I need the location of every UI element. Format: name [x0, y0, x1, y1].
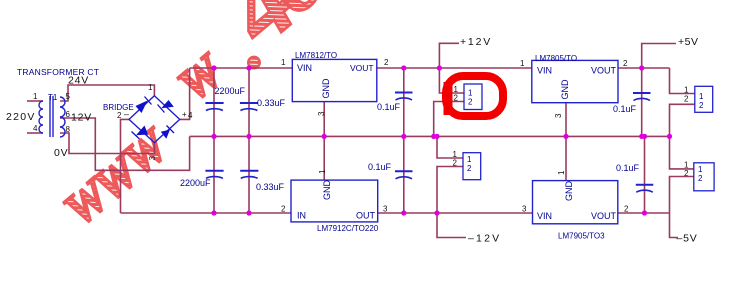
node: GND J2: [434, 134, 439, 139]
svg-text:1: 1: [699, 92, 704, 101]
diode D-topright: [161, 100, 174, 108]
svg-text:IN: IN: [297, 211, 306, 221]
watermark WWW.4: [54, 0, 342, 235]
wire: 0.1uF mid bottom column: [403, 136, 405, 213]
svg-text:T1: T1: [48, 93, 58, 102]
capacitor 0.1uF mid bottom: [395, 171, 413, 179]
wire: bottom -raw rail: [121, 212, 292, 214]
svg-text:2: 2: [684, 169, 689, 178]
svg-text:GND: GND: [564, 181, 574, 202]
node: GND cap2: [246, 134, 251, 139]
wire: bridge - to bottom rail: [121, 119, 130, 213]
svg-text:2: 2: [117, 111, 122, 120]
capacitor 0.33uF top: [240, 103, 258, 111]
svg-text:2: 2: [623, 59, 628, 68]
svg-text:2: 2: [384, 58, 389, 67]
svg-text:1: 1: [281, 58, 286, 67]
svg-text:1: 1: [468, 89, 473, 98]
wire: LM7805/LM7905 GND vertical: [565, 103, 567, 181]
wire: 2200uF bottom column: [213, 136, 215, 213]
svg-text:0.33uF: 0.33uF: [256, 182, 285, 192]
diode bar topleft: [145, 97, 152, 105]
diode bar bottomright: [167, 126, 175, 134]
wire: J1 pin1 feed: [439, 68, 464, 93]
svg-text:24V: 24V: [68, 75, 89, 87]
wire: bridge + to top rail: [180, 68, 190, 119]
svg-text:GND: GND: [322, 180, 332, 201]
svg-text:+12V: +12V: [460, 36, 492, 48]
capacitor 0.1uF mid top: [395, 93, 413, 101]
svg-text:OUT: OUT: [356, 211, 376, 221]
svg-text:2200uF: 2200uF: [215, 86, 246, 96]
capacitor 2200uF bottom: [205, 171, 223, 179]
svg-text:2: 2: [454, 94, 459, 103]
wire: 12V center tap to GND rail: [60, 118, 190, 170]
svg-text:2: 2: [453, 159, 458, 168]
diode bar topright: [158, 105, 165, 113]
wire: 0.33uF top column: [248, 68, 250, 136]
wire: 0.1uF mid top column: [403, 68, 405, 136]
wire: +5V rail: [618, 67, 670, 69]
wire: 0.1uF right top column: [641, 68, 643, 136]
svg-text:LM7905/TO3: LM7905/TO3: [558, 232, 605, 241]
svg-text:1: 1: [684, 86, 689, 95]
svg-text:8: 8: [66, 125, 71, 134]
svg-text:0.33uF: 0.33uF: [257, 98, 286, 108]
svg-text:2: 2: [468, 98, 473, 107]
node: +12V rail J1: [437, 65, 442, 70]
node: GND cap1: [211, 134, 216, 139]
transformer core: [49, 96, 51, 137]
node: +12V rail 0.1uF: [401, 65, 406, 70]
wire: 24V net pin5 to bridge top: [60, 85, 154, 101]
svg-text:VIN: VIN: [537, 66, 552, 76]
node: GND J1: [431, 134, 436, 139]
node: GND regulators right: [563, 134, 568, 139]
node: -12V rail 0.1uF: [401, 210, 406, 215]
wire: -12V rail: [378, 212, 533, 214]
svg-text:LM7912C/TO220: LM7912C/TO220: [317, 224, 379, 233]
svg-text:6: 6: [66, 110, 71, 119]
svg-text:–5V: –5V: [677, 233, 698, 245]
node: -raw cap1: [211, 210, 216, 215]
node: GND 0.1uF right top: [639, 134, 644, 139]
wire: +5V label stub: [642, 44, 676, 69]
svg-text:0.1uF: 0.1uF: [616, 163, 640, 173]
svg-text:2: 2: [467, 164, 472, 173]
wire: J2 pin1 feed from GND: [437, 136, 463, 158]
bridge diamond: [129, 96, 180, 143]
wire: transformer pin4 lead: [27, 132, 43, 134]
wire: +12V rail: [377, 67, 532, 69]
capacitor 0.1uF right top: [633, 93, 651, 101]
wire: J4 pin2 to -5V rail: [670, 177, 694, 214]
svg-text:2: 2: [281, 205, 286, 214]
svg-text:GND: GND: [560, 79, 570, 100]
wire: J3 pin2 to GND: [670, 104, 695, 136]
capacitor 0.33uF bottom: [240, 171, 258, 179]
svg-text:220V: 220V: [6, 111, 36, 123]
svg-text:0.1uF: 0.1uF: [368, 162, 392, 172]
svg-text:0V: 0V: [54, 147, 68, 159]
svg-text:VOUT: VOUT: [350, 63, 374, 73]
svg-text:–12V: –12V: [468, 233, 501, 245]
svg-text:+: +: [182, 110, 187, 119]
diode D-bottomright: [161, 130, 170, 139]
svg-text:5: 5: [66, 92, 71, 101]
svg-text:1: 1: [33, 92, 38, 101]
wire: 0V pin8 to bridge bottom: [60, 133, 154, 154]
svg-text:1: 1: [557, 170, 566, 175]
wire: J4 pin1 feed from GND: [670, 136, 694, 169]
node: -raw cap2: [246, 210, 251, 215]
svg-text:VIN: VIN: [297, 63, 312, 73]
wire: GND rail: [190, 135, 670, 137]
node: -5V rail 0.1uF: [642, 210, 647, 215]
wire: 0.33uF bottom column: [248, 136, 250, 213]
svg-text:LM7805/TO: LM7805/TO: [535, 54, 577, 63]
svg-text:LM7812/TO: LM7812/TO: [295, 51, 337, 60]
wire: J1 pin2 to GND: [434, 102, 464, 137]
svg-text:2200uF: 2200uF: [180, 178, 211, 188]
node: top rail cap1: [211, 65, 216, 70]
wire: J3 pin1 feed: [670, 68, 695, 94]
wire: -12V label stub: [437, 213, 466, 238]
node: GND right end: [667, 134, 672, 139]
diode bar bottomleft: [132, 132, 140, 140]
svg-text:3: 3: [554, 113, 563, 118]
wire: 2200uF top column: [213, 68, 215, 136]
svg-text:1: 1: [467, 155, 472, 164]
svg-text:W: W: [168, 43, 234, 110]
svg-text:12V: 12V: [71, 112, 92, 124]
diode D-bottomleft: [136, 126, 148, 136]
wire: top +raw rail: [190, 67, 293, 69]
capacitor 2200uF top: [205, 103, 223, 111]
transformer primary coil: [39, 101, 43, 133]
svg-text:1: 1: [698, 165, 703, 174]
wire: J2 pin2 to -12V rail: [437, 167, 463, 214]
svg-text:VOUT: VOUT: [591, 66, 617, 76]
svg-text:2: 2: [624, 205, 629, 214]
node: GND regulators left: [322, 134, 327, 139]
svg-text:0.1uF: 0.1uF: [613, 104, 637, 114]
red annotation circle: [446, 76, 503, 116]
svg-text:2: 2: [684, 95, 689, 104]
svg-text:1: 1: [148, 83, 153, 92]
diode D-topleft: [136, 101, 148, 114]
svg-text:–: –: [124, 109, 129, 119]
wire: -5V label stub: [670, 213, 679, 238]
svg-text:0.1uF: 0.1uF: [377, 102, 401, 112]
svg-text:VOUT: VOUT: [591, 211, 617, 221]
wire: +12V label stub: [439, 43, 459, 68]
svg-text:3: 3: [148, 156, 157, 161]
wire: LM7812/LM7912 GND vertical: [323, 102, 325, 180]
node: top rail cap2: [246, 65, 251, 70]
svg-text:3: 3: [522, 205, 527, 214]
svg-text:VIN: VIN: [537, 211, 552, 221]
svg-text:GND: GND: [321, 78, 331, 99]
wire: transformer pin1 lead: [27, 100, 43, 102]
node: GND 0.1uF right bottom: [642, 134, 647, 139]
node: GND 0.1uF mid: [401, 134, 406, 139]
node: +5V rail 0.1uF: [639, 65, 644, 70]
wire: -5V rail: [618, 212, 670, 214]
capacitor 0.1uF right bottom: [636, 185, 654, 193]
svg-text:1: 1: [318, 169, 327, 174]
svg-text:3: 3: [317, 111, 326, 116]
svg-text:4: 4: [33, 124, 38, 133]
svg-text:+5V: +5V: [678, 36, 698, 48]
svg-text:4: 4: [188, 111, 193, 120]
svg-text:3: 3: [383, 205, 388, 214]
svg-text:2: 2: [698, 174, 703, 183]
svg-text:2: 2: [699, 101, 704, 110]
svg-text:1: 1: [520, 59, 525, 68]
wire: 0.1uF right bottom column: [644, 136, 646, 213]
node: -12V rail J2: [434, 210, 439, 215]
transformer secondary coil: [60, 97, 65, 137]
